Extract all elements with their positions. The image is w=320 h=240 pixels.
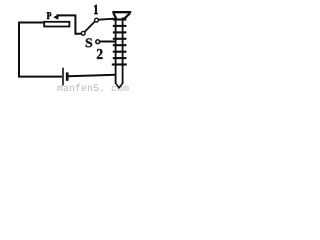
battery positive plate (long) bbox=[62, 68, 64, 86]
wire: contact 2 tap to coil bbox=[100, 41, 116, 43]
wire: top from left corner to rheostat bbox=[18, 22, 44, 24]
label 2 bbox=[97, 49, 103, 59]
wire: bottom from left corner to battery bbox=[18, 76, 62, 78]
switch S pivot terminal bbox=[81, 31, 85, 35]
battery negative plate (short thick) bbox=[66, 72, 69, 80]
electromagnet coil turns (rungs) bbox=[112, 20, 127, 65]
wire: contact 1 to coil top bbox=[99, 19, 115, 20]
wire: slider arm horizontal bbox=[57, 14, 76, 16]
wire: battery to coil bottom bbox=[69, 75, 116, 77]
electromagnet core (nail) head bbox=[112, 11, 131, 13]
switch contact 1 terminal bbox=[95, 18, 99, 22]
switch contact 2 terminal bbox=[96, 40, 100, 44]
resistor (rheostat) P body box bbox=[44, 22, 69, 27]
label S bbox=[86, 38, 92, 47]
label P bbox=[47, 12, 51, 19]
wire: left vertical side bbox=[18, 23, 20, 77]
switch S lever (open, toward contact 1) bbox=[85, 22, 95, 32]
electromagnet core (nail) shaft bbox=[115, 18, 117, 84]
rheostat slider arrow head bbox=[53, 14, 59, 20]
wire: slider arm drop to switch pivot bbox=[75, 15, 81, 34]
label 1 bbox=[94, 5, 97, 14]
watermark manfen5. com bbox=[57, 84, 128, 91]
nail tip bbox=[116, 83, 123, 88]
